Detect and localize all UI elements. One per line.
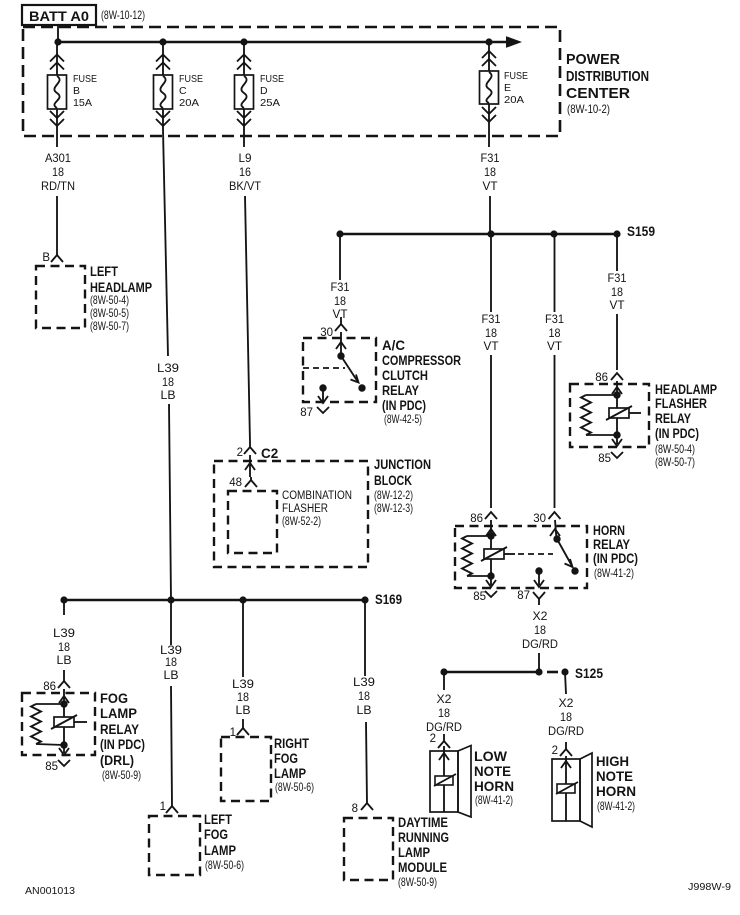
relay coil [51, 715, 87, 729]
bus wire (top feed) [58, 41, 507, 44]
svg-text:2: 2 [237, 447, 243, 459]
relay coil [481, 547, 515, 561]
switch arm [557, 539, 573, 567]
svg-text:86: 86 [470, 513, 483, 525]
wire label X2 18 DG/RD [426, 694, 462, 734]
pin arrow 85 out [612, 435, 622, 446]
svg-text:LOW: LOW [474, 749, 507, 764]
high note horn symbol [552, 753, 592, 827]
wire S159 to horn relay 86 (lower) [490, 355, 492, 508]
wire S159 to A/C relay [339, 234, 341, 280]
svg-text:RELAY: RELAY [655, 411, 691, 426]
label POWER DISTRIBUTION CENTER [566, 51, 649, 116]
svg-text:F31: F31 [545, 314, 564, 326]
node fog relay tap [60, 596, 67, 603]
wire S159 to horn relay 30 (lower) [554, 355, 556, 508]
connector C2 [244, 443, 256, 454]
wire label L9 16 BK/VT [229, 153, 261, 193]
wire S169 to DRL module (upper) [364, 600, 366, 676]
wire coil top branch [36, 703, 64, 705]
left headlamp box [36, 266, 85, 328]
svg-text:18: 18 [334, 296, 346, 308]
svg-text:DG/RD: DG/RD [548, 726, 584, 738]
svg-text:(IN PDC): (IN PDC) [655, 426, 699, 441]
svg-text:18: 18 [165, 657, 177, 669]
Power Distribution Center dashed enclosure [23, 27, 560, 136]
node right fog tap [239, 596, 246, 603]
svg-text:18: 18 [438, 708, 450, 720]
wire S169 to right fog lamp (upper) [242, 600, 244, 677]
svg-text:DISTRIBUTION: DISTRIBUTION [566, 68, 649, 85]
label RIGHT FOG LAMP [274, 736, 314, 794]
svg-text:(8W-50-7): (8W-50-7) [90, 319, 129, 333]
svg-text:18: 18 [560, 712, 572, 724]
wire label L39 18 LB [232, 679, 254, 717]
svg-text:85: 85 [45, 761, 58, 773]
svg-text:X2: X2 [533, 611, 548, 623]
wire coil vertical [63, 704, 65, 745]
svg-text:2: 2 [430, 733, 436, 745]
svg-text:18: 18 [58, 642, 70, 654]
junction block box [214, 461, 368, 567]
svg-text:(8W-52-2): (8W-52-2) [282, 516, 321, 528]
svg-text:LAMP: LAMP [274, 766, 306, 781]
wire S125 to low note horn [443, 672, 445, 690]
svg-text:(8W-50-9): (8W-50-9) [102, 768, 141, 782]
node X2 feed tap [535, 668, 542, 675]
svg-text:18: 18 [484, 167, 496, 179]
wire lower segment [366, 722, 367, 803]
svg-text:RELAY: RELAY [100, 722, 139, 737]
node fuse B tap [54, 38, 61, 45]
pin arrow 30 into relay [336, 332, 346, 356]
label A/C COMPRESSOR CLUTCH RELAY [382, 338, 461, 426]
node left fog tap [167, 596, 174, 603]
svg-text:VT: VT [484, 341, 499, 353]
wire label F31 18 VT [331, 282, 350, 321]
svg-text:(8W-50-6): (8W-50-6) [205, 858, 244, 872]
label LEFT FOG LAMP [204, 812, 244, 872]
svg-text:F31: F31 [482, 314, 501, 326]
connector pin 2 [560, 742, 572, 756]
node A/C relay tap [336, 230, 343, 237]
connector chevron 85 [58, 760, 70, 766]
svg-text:1: 1 [160, 801, 166, 813]
svg-text:BK/VT: BK/VT [229, 181, 261, 193]
svg-text:(8W-50-6): (8W-50-6) [275, 780, 314, 794]
connector 48 [245, 477, 257, 487]
connector pin 30 [549, 512, 561, 519]
svg-text:85: 85 [598, 453, 611, 465]
svg-text:X2: X2 [559, 698, 574, 710]
wire resistor bottom branch [36, 744, 64, 745]
svg-text:S159: S159 [627, 224, 655, 239]
pin arrow 87 out [534, 571, 544, 587]
connector pin 1 [237, 728, 249, 735]
wire label F31 18 VT [481, 153, 500, 193]
node coil top [613, 391, 620, 398]
svg-text:B: B [73, 85, 80, 97]
svg-text:(8W-50-7): (8W-50-7) [655, 455, 695, 469]
wire coil top branch [586, 394, 617, 396]
node pin 87 [535, 567, 542, 574]
svg-text:1: 1 [230, 727, 236, 739]
svg-text:POWER: POWER [566, 51, 620, 68]
combination flasher box [228, 491, 277, 553]
wire fuse C down (lower) [169, 404, 171, 600]
wire lower segment [171, 686, 172, 806]
svg-text:18: 18 [534, 625, 546, 637]
node horn relay 86 tap [487, 230, 494, 237]
svg-text:F31: F31 [608, 273, 627, 285]
horn relay box [455, 526, 587, 588]
pin arrow into junction block [245, 455, 255, 477]
svg-text:COMPRESSOR: COMPRESSOR [382, 353, 461, 368]
resistor [581, 395, 591, 435]
wire label X2 18 DG/RD [548, 698, 584, 738]
node fuse E tap [485, 38, 492, 45]
wire coil top branch [467, 535, 491, 537]
svg-text:HORN: HORN [474, 779, 514, 794]
connector B [51, 251, 63, 262]
svg-text:20A: 20A [179, 97, 199, 109]
svg-text:A301: A301 [45, 153, 71, 165]
svg-text:86: 86 [43, 681, 56, 693]
svg-text:48: 48 [229, 477, 242, 489]
svg-text:NOTE: NOTE [474, 764, 511, 779]
svg-text:C: C [179, 85, 187, 97]
A/C relay box [303, 338, 376, 402]
svg-text:HEADLAMP: HEADLAMP [655, 382, 717, 397]
node switch throw 87 [358, 384, 365, 391]
svg-text:L39: L39 [157, 363, 179, 375]
svg-text:RIGHT: RIGHT [274, 736, 310, 751]
connector pin 86 [58, 681, 70, 688]
svg-text:RD/TN: RD/TN [41, 181, 75, 193]
svg-text:(8W-50-5): (8W-50-5) [90, 306, 129, 320]
svg-text:LAMP: LAMP [398, 845, 430, 860]
wire lower segment [63, 670, 65, 681]
connector pin 86 [611, 373, 623, 380]
wire coil vertical [490, 536, 492, 576]
resistor [462, 536, 472, 576]
wire label L39 18 LB [353, 677, 375, 717]
svg-text:S125: S125 [575, 666, 603, 681]
node pin 87 [319, 384, 326, 391]
label FUSE B 15A [73, 73, 97, 109]
svg-text:CLUTCH: CLUTCH [382, 368, 428, 383]
label FUSE C 20A [179, 73, 203, 109]
svg-text:FLASHER: FLASHER [655, 396, 707, 411]
svg-text:18: 18 [358, 691, 370, 703]
splice bus S169 [64, 599, 365, 602]
connector chevron 85 [611, 452, 623, 458]
svg-text:(8W-12-2): (8W-12-2) [374, 488, 413, 502]
pin arrow 86 into relay [59, 689, 69, 704]
wire fuse D to junction block [245, 196, 250, 443]
svg-text:A/C: A/C [382, 338, 405, 353]
svg-text:NOTE: NOTE [596, 769, 633, 784]
svg-text:18: 18 [162, 377, 174, 389]
splice bus S159 [340, 233, 617, 236]
node fuse C tap [159, 38, 166, 45]
svg-text:F31: F31 [481, 153, 500, 165]
svg-text:RUNNING: RUNNING [398, 830, 449, 845]
wire lower segment [242, 719, 244, 728]
node coil bottom [487, 572, 494, 579]
svg-text:18: 18 [485, 328, 497, 340]
svg-text:FLASHER: FLASHER [282, 503, 328, 515]
svg-text:LEFT: LEFT [90, 264, 119, 279]
wire BATT A0 to bus [57, 25, 59, 42]
svg-text:20A: 20A [504, 94, 524, 106]
svg-text:DAYTIME: DAYTIME [398, 815, 448, 830]
wire label L39 18 LB [160, 645, 182, 682]
label FOG LAMP RELAY [100, 691, 145, 782]
node DRL tap [361, 596, 368, 603]
svg-text:2: 2 [552, 745, 558, 757]
svg-text:LAMP: LAMP [204, 843, 236, 858]
node horn relay 30 tap [550, 230, 557, 237]
wire S159 to horn relay 30 (upper) [554, 234, 556, 312]
svg-text:L39: L39 [353, 677, 375, 689]
svg-text:L9: L9 [239, 153, 252, 165]
fuse B with connectors [48, 42, 67, 147]
wire S125 to high note horn [565, 672, 566, 694]
svg-text:LB: LB [164, 670, 179, 682]
svg-text:18: 18 [237, 692, 249, 704]
wire S159 to flasher 86 (upper) [616, 234, 618, 271]
wire label L39 18 LB [157, 363, 179, 402]
relay coil [606, 406, 641, 420]
wire S169 to fog relay [63, 600, 65, 615]
svg-text:(IN PDC): (IN PDC) [593, 551, 638, 566]
svg-text:VT: VT [547, 341, 562, 353]
svg-text:X2: X2 [437, 694, 452, 706]
bus dash segment [547, 671, 558, 674]
low note horn symbol [430, 746, 471, 818]
svg-text:FUSE: FUSE [260, 73, 284, 85]
svg-text:COMBINATION: COMBINATION [282, 490, 352, 502]
right fog lamp box [221, 737, 271, 801]
label HEADLAMP FLASHER RELAY [655, 382, 717, 469]
connector pin 1 [166, 806, 178, 813]
svg-text:8: 8 [352, 803, 358, 815]
node low note horn tap [440, 668, 447, 675]
fog lamp relay box [22, 693, 95, 755]
svg-text:(IN PDC): (IN PDC) [382, 398, 426, 413]
wire S159 to flasher 86 (lower) [616, 314, 618, 370]
label JUNCTION BLOCK [374, 457, 431, 515]
svg-text:HIGH: HIGH [596, 754, 629, 769]
svg-text:(8W-42-5): (8W-42-5) [384, 412, 422, 426]
pin arrow 87 out [318, 388, 328, 403]
node headlamp flasher tap [613, 230, 620, 237]
node fuse D tap [240, 38, 247, 45]
svg-text:LAMP: LAMP [100, 706, 137, 721]
wire resistor bottom branch [586, 434, 617, 436]
wire S169 to left fog lamp (upper) [170, 600, 172, 645]
svg-text:18: 18 [549, 328, 561, 340]
wire label L39 18 LB [53, 628, 75, 667]
label FUSE D 25A [260, 73, 284, 109]
svg-text:FUSE: FUSE [179, 73, 203, 85]
svg-text:LB: LB [57, 655, 72, 667]
svg-text:DG/RD: DG/RD [522, 639, 558, 651]
svg-text:J998W-9: J998W-9 [688, 881, 731, 893]
connector chevron 85 [485, 591, 497, 597]
svg-text:CENTER: CENTER [566, 85, 630, 102]
node coil top [487, 532, 494, 539]
svg-text:L39: L39 [160, 645, 182, 657]
left fog lamp box [149, 816, 200, 875]
wire 87 lower [538, 653, 540, 672]
splice bus S125 [444, 671, 539, 674]
wire label F31 18 VT [545, 314, 564, 353]
wire label A301 18 RD/TN [41, 153, 75, 193]
svg-text:86: 86 [595, 372, 608, 384]
svg-text:(8W-10-2): (8W-10-2) [567, 102, 610, 116]
svg-text:S169: S169 [375, 592, 402, 607]
svg-text:MODULE: MODULE [398, 860, 447, 875]
wire label F31 18 VT [482, 314, 501, 353]
wire fuse E to S159 [489, 196, 491, 234]
svg-text:(DRL): (DRL) [100, 753, 134, 768]
svg-text:FOG: FOG [204, 827, 228, 842]
wire fuse C down (upper) [163, 130, 168, 356]
linkage dashed line [303, 367, 345, 369]
pin arrow 86 into relay [612, 381, 622, 395]
svg-text:VT: VT [610, 300, 625, 312]
svg-text:30: 30 [533, 513, 546, 525]
connector pin 8 [361, 803, 373, 810]
svg-text:F31: F31 [331, 282, 350, 294]
svg-text:(IN PDC): (IN PDC) [100, 737, 145, 752]
svg-text:85: 85 [473, 591, 486, 603]
svg-text:25A: 25A [260, 97, 280, 109]
svg-text:18: 18 [611, 287, 623, 299]
svg-text:(8W-50-9): (8W-50-9) [398, 875, 437, 889]
svg-text:(8W-10-12): (8W-10-12) [101, 8, 145, 22]
pin arrow 86 into relay [486, 520, 496, 536]
wire coil vertical [616, 395, 618, 435]
svg-text:VT: VT [333, 309, 348, 321]
svg-text:E: E [504, 82, 511, 94]
wire fuse B to left headlamp [56, 196, 58, 251]
switch arm [341, 356, 359, 383]
svg-text:RELAY: RELAY [382, 383, 419, 398]
svg-text:(8W-50-4): (8W-50-4) [655, 442, 695, 456]
svg-text:18: 18 [52, 167, 64, 179]
node switch throw [571, 567, 578, 574]
svg-text:D: D [260, 85, 268, 97]
svg-text:FOG: FOG [274, 751, 298, 766]
label FUSE E 20A [504, 70, 528, 106]
label HIGH NOTE HORN [596, 754, 636, 813]
svg-text:LB: LB [161, 390, 176, 402]
label LOW NOTE HORN [474, 749, 514, 807]
connector pin 86 [485, 512, 497, 519]
headlamp flasher relay box [570, 384, 649, 447]
pin arrow 85 out [486, 576, 496, 587]
svg-text:FUSE: FUSE [73, 73, 97, 85]
DRL module box [344, 818, 393, 880]
BATT A0 feed box [22, 5, 96, 25]
svg-text:C2: C2 [261, 446, 278, 461]
node coil bottom [613, 431, 620, 438]
svg-text:RELAY: RELAY [593, 537, 630, 552]
arrow bus end [506, 36, 522, 48]
label HORN RELAY [593, 523, 638, 580]
node switch common 30 [553, 535, 560, 542]
svg-text:BATT A0: BATT A0 [29, 9, 89, 24]
pin arrow 30 into relay [550, 520, 560, 539]
wire S159 to horn relay 86 (upper) [490, 234, 492, 312]
svg-text:87: 87 [300, 407, 313, 419]
connector chevron 87 [317, 407, 329, 413]
node coil top [60, 700, 67, 707]
wire horn relay 87 to S125 [522, 611, 558, 651]
fuse E with connectors [480, 42, 499, 147]
svg-text:16: 16 [239, 167, 251, 179]
svg-text:B: B [42, 252, 50, 264]
node switch common [337, 352, 344, 359]
svg-text:FOG: FOG [100, 691, 128, 706]
pin arrow 85 out [59, 745, 69, 755]
svg-text:AN001013: AN001013 [25, 885, 75, 897]
fuse C with connectors [154, 42, 173, 130]
linkage dashed line [518, 553, 553, 555]
fuse D with connectors [235, 42, 254, 147]
connector pin 2 [438, 734, 450, 748]
node high note horn tap [561, 668, 568, 675]
svg-text:LB: LB [357, 705, 372, 717]
svg-text:(8W-41-2): (8W-41-2) [594, 566, 634, 580]
connector Y 87 [533, 592, 545, 605]
label DAYTIME RUNNING LAMP MODULE [398, 815, 449, 889]
svg-text:LB: LB [236, 705, 251, 717]
svg-text:BLOCK: BLOCK [374, 473, 412, 488]
svg-text:(8W-50-4): (8W-50-4) [90, 293, 129, 307]
svg-text:L39: L39 [232, 679, 254, 691]
svg-text:(8W-41-2): (8W-41-2) [597, 799, 635, 813]
svg-text:FUSE: FUSE [504, 70, 528, 82]
connector pin 30 [335, 317, 347, 331]
label LEFT HEADLAMP [90, 264, 152, 333]
svg-text:HORN: HORN [593, 523, 625, 538]
svg-text:87: 87 [517, 590, 530, 602]
svg-text:15A: 15A [73, 97, 92, 109]
svg-text:LEFT: LEFT [204, 812, 233, 827]
svg-text:(8W-41-2): (8W-41-2) [475, 793, 513, 807]
svg-text:(8W-12-3): (8W-12-3) [374, 501, 413, 515]
svg-text:L39: L39 [53, 628, 75, 640]
svg-text:HORN: HORN [596, 784, 636, 799]
svg-text:VT: VT [483, 181, 498, 193]
label COMBINATION FLASHER [282, 490, 352, 528]
svg-text:JUNCTION: JUNCTION [374, 457, 431, 472]
node coil bottom [60, 741, 67, 748]
wire label F31 18 VT [608, 273, 627, 312]
resistor [31, 704, 41, 744]
wire resistor bottom branch [467, 575, 491, 577]
